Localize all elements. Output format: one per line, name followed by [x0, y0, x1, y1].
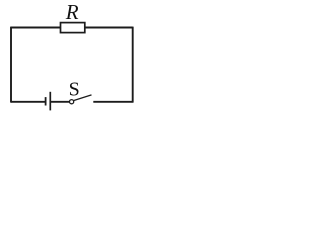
- svg-text:R: R: [65, 0, 79, 24]
- svg-text:S: S: [69, 79, 80, 101]
